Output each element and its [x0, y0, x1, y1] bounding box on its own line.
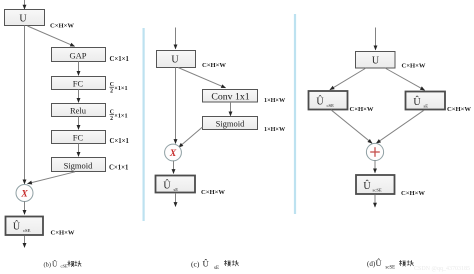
wire: U to U_sSE diagonal (d): [385, 68, 425, 90]
label C×H×W at U_sSE (d): [447, 106, 471, 113]
svg-text:X: X: [169, 149, 177, 159]
svg-text:Sigmoid: Sigmoid: [64, 160, 94, 170]
svg-text:Û: Û: [376, 258, 382, 268]
separator line between panel b and c: [143, 28, 145, 221]
wire: U down to multiply node (c): [175, 68, 177, 144]
svg-text:1×H×W: 1×H×W: [264, 97, 286, 104]
wire: FC to Relu: [78, 90, 80, 103]
box Conv 1x1: [203, 90, 258, 103]
svg-text:C×1×1: C×1×1: [110, 138, 130, 145]
svg-text:×1×1: ×1×1: [114, 85, 127, 92]
box Relu: [52, 104, 106, 117]
svg-text:scSE: scSE: [386, 265, 396, 270]
svg-text:C×H×W: C×H×W: [402, 63, 426, 70]
label C×H×W at U (b): [50, 22, 74, 29]
wire: output arrow from U_scSE (d): [374, 195, 376, 208]
wire: multiply node to U_cSE box (b): [24, 201, 26, 214]
svg-text:C×H×W: C×H×W: [401, 190, 425, 197]
wire: output arrow from U_sSE (c): [175, 193, 177, 206]
multiply node X (c): [165, 144, 182, 161]
wire: U to Conv 1x1 diagonal (c): [178, 68, 226, 88]
wire: Sigmoid to multiply node (c): [179, 127, 203, 147]
wire: multiply node to U_sSE box (c): [173, 161, 175, 174]
svg-text:C×H×W: C×H×W: [447, 106, 471, 113]
label C×H×W at U (d): [402, 63, 426, 70]
box FC lower: [52, 131, 106, 144]
wire: FC lower to Sigmoid (b): [78, 144, 80, 157]
svg-text:FC: FC: [73, 79, 84, 89]
svg-text:C×1×1: C×1×1: [109, 165, 129, 172]
add node + (d): [366, 143, 383, 160]
box U (b): [5, 10, 45, 26]
wire: U to GAP diagonal (b): [28, 26, 75, 46]
svg-text:Û: Û: [52, 258, 58, 268]
box U_sSE (c): [156, 176, 196, 193]
svg-text:2: 2: [110, 116, 113, 122]
caption (c) U_sSE module: [191, 259, 239, 272]
label C×1×1 at Sigmoid (b): [109, 165, 129, 172]
svg-text:Sigmoid: Sigmoid: [216, 119, 246, 129]
box FC upper: [52, 77, 106, 90]
wire: output arrow from U_cSE (b): [24, 236, 26, 247]
svg-text:Relu: Relu: [70, 106, 87, 116]
box U_scSE (d): [356, 175, 395, 194]
wire: input arrow into U (d): [375, 28, 377, 50]
svg-text:Û: Û: [163, 180, 171, 192]
svg-text:C×H×W: C×H×W: [51, 230, 75, 237]
label C×1×1 at FC lower: [110, 138, 130, 145]
wire: U to U_cSE diagonal (d): [330, 68, 366, 90]
box Sigmoid (b): [52, 158, 106, 172]
multiply node X (b): [16, 185, 33, 202]
wire: input arrow into U (b): [24, 0, 26, 9]
wire: U_cSE to add node (d): [331, 110, 372, 143]
svg-text:X: X: [20, 189, 28, 199]
watermark bottom right: [414, 266, 470, 272]
label C/2×1×1 at FC upper: [110, 82, 128, 94]
label C×H×W at U (c): [202, 62, 226, 69]
svg-text:Û: Û: [13, 221, 21, 233]
svg-text:GAP: GAP: [69, 50, 86, 60]
box Sigmoid (c): [203, 117, 258, 130]
label 1×H×W at Conv 1x1: [264, 97, 286, 104]
svg-text:C×H×W: C×H×W: [201, 189, 225, 196]
label C×H×W at U_sSE (c): [201, 189, 225, 196]
wire: add node to U_scSE box (d): [374, 160, 376, 173]
svg-text:sE: sE: [424, 103, 429, 108]
svg-text:U: U: [19, 14, 27, 25]
svg-text:sE: sE: [214, 266, 219, 271]
svg-text:(d): (d): [367, 260, 376, 268]
svg-text:U: U: [171, 55, 179, 66]
wire: U down to multiply node (b): [24, 26, 26, 184]
wire: U_sSE to add node (d): [376, 110, 424, 143]
label C/2×1×1 at Relu: [110, 110, 128, 122]
label 1×H×W at Sigmoid (c): [264, 126, 286, 133]
svg-text:Û: Û: [316, 96, 324, 108]
svg-text:1×H×W: 1×H×W: [264, 126, 286, 133]
caption (b) U_cSE module: [44, 258, 82, 268]
svg-text:FC: FC: [73, 133, 84, 143]
svg-text:(c): (c): [191, 260, 200, 269]
label C×H×W at U_scSE (d): [401, 190, 425, 197]
box U_cSE (b): [6, 217, 44, 236]
label C×1×1 at GAP: [110, 56, 130, 63]
wire: Sigmoid to multiply node (b): [28, 172, 75, 184]
label C×H×W at U_cSE (d): [350, 106, 374, 113]
svg-text:C×H×W: C×H×W: [50, 22, 74, 29]
svg-text:(b): (b): [44, 261, 51, 268]
box U_cSE (d): [309, 91, 348, 110]
box U (c): [157, 51, 196, 68]
box U_sSE (d): [406, 92, 446, 110]
svg-text:Conv 1x1: Conv 1x1: [211, 92, 249, 103]
svg-text:C×1×1: C×1×1: [110, 56, 130, 63]
svg-text:U: U: [372, 56, 380, 67]
svg-text:cSE: cSE: [327, 103, 335, 108]
wire: Relu to FC lower: [78, 117, 80, 130]
svg-text:Û: Û: [363, 180, 371, 192]
svg-text:C×H×W: C×H×W: [350, 106, 374, 113]
svg-text:Û: Û: [413, 96, 421, 108]
separator line between panel c and d: [294, 14, 296, 214]
svg-text:scSE: scSE: [373, 187, 382, 192]
wire: input arrow into U (c): [175, 28, 177, 49]
caption (d) U_scSE module: [367, 258, 414, 270]
wire: GAP to FC: [78, 62, 80, 76]
label C×H×W at U_cSE (b): [51, 230, 75, 237]
svg-text:×1×1: ×1×1: [114, 113, 127, 120]
box U (d): [356, 52, 396, 69]
box GAP: [52, 48, 106, 62]
wire: Conv 1x1 to Sigmoid (c): [230, 102, 232, 116]
svg-text:2: 2: [110, 89, 113, 95]
svg-text:CSDN @qq_43703185: CSDN @qq_43703185: [414, 266, 470, 272]
svg-text:cSE: cSE: [23, 228, 31, 233]
svg-text:sE: sE: [174, 187, 179, 192]
svg-text:C×H×W: C×H×W: [202, 62, 226, 69]
svg-text:Û: Û: [203, 259, 210, 269]
svg-text:cSE: cSE: [61, 263, 68, 268]
